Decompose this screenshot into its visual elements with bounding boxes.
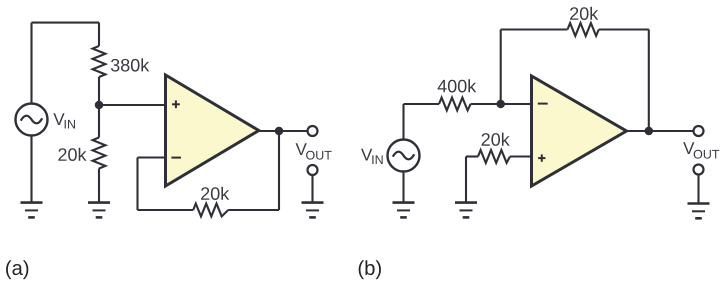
minus sign U1 (a) bbox=[171, 157, 181, 159]
label 380k bbox=[111, 58, 149, 71]
node output (b) bbox=[645, 127, 654, 136]
label VOUT (b) bbox=[683, 142, 719, 158]
wire feedback bottom right (a) bbox=[228, 209, 279, 211]
wire VIN up (b) bbox=[402, 104, 404, 140]
resistor R 400k (b) bbox=[439, 98, 471, 111]
resistor R 20k feedback (a) bbox=[193, 204, 228, 217]
wire node to 20k (a) bbox=[98, 105, 100, 138]
node output (a) bbox=[275, 127, 284, 136]
label 20k divider (a) bbox=[58, 148, 86, 161]
label VOUT (a) bbox=[296, 143, 332, 159]
wire node to op-amp plus input (a) bbox=[99, 104, 166, 106]
label VIN (a) bbox=[53, 113, 75, 128]
wire feedback top left (b) bbox=[501, 28, 568, 30]
wire plus branch horizontal (b) bbox=[466, 155, 478, 157]
terminal VOUT (a) bbox=[308, 126, 318, 136]
wire terminal to ground (b) bbox=[697, 175, 699, 204]
minus sign U2 (b) bbox=[538, 103, 548, 105]
wire left vertical top (a) bbox=[30, 23, 32, 104]
wire feedback top right (b) bbox=[599, 28, 649, 30]
ground under 20k (a) bbox=[88, 203, 110, 218]
wire feedback left vertical (a) bbox=[136, 158, 138, 211]
wire plus branch vertical (b) bbox=[465, 157, 467, 203]
caption (b) bbox=[359, 260, 381, 279]
AC source VIN (a) bbox=[16, 104, 48, 136]
node input divider (a) bbox=[95, 101, 104, 110]
wire 20k to ground (a) bbox=[98, 169, 100, 203]
wire feedback left vertical (b) bbox=[500, 30, 502, 105]
ground under terminal (b) bbox=[688, 204, 710, 219]
plus sign U1 (a) bbox=[172, 100, 180, 108]
wire 400k to minus input (b) bbox=[471, 103, 532, 105]
label 20k feedback (b) bbox=[570, 7, 598, 20]
wire VIN to 400k (b) bbox=[404, 103, 440, 105]
wire feedback right vertical (a) bbox=[278, 131, 280, 210]
ground under VIN (b) bbox=[393, 203, 415, 218]
wire minus input (a) bbox=[138, 156, 166, 158]
resistor R 20k divider (a) bbox=[93, 138, 106, 169]
AC source VIN (b) bbox=[388, 140, 420, 172]
wire VIN to ground (b) bbox=[402, 172, 404, 203]
wire op-amp output (a) bbox=[259, 130, 308, 132]
op-amp U1 (a) bbox=[166, 75, 259, 186]
resistor R 380k (a) bbox=[93, 46, 106, 77]
wire top rail (a) bbox=[32, 22, 100, 24]
label VIN (b) bbox=[361, 149, 383, 164]
label 20k plus input (b) bbox=[482, 133, 510, 146]
wire op-amp output (b) bbox=[627, 130, 694, 132]
plus sign U2 (b) bbox=[538, 154, 545, 161]
label 400k (b) bbox=[438, 79, 477, 92]
resistor R 20k feedback (b) bbox=[568, 23, 599, 36]
ground under terminal (a) bbox=[302, 203, 324, 218]
op-amp U2 (b) bbox=[532, 76, 627, 186]
wire feedback right vertical (b) bbox=[648, 30, 650, 132]
caption (a) bbox=[6, 260, 28, 279]
ground under VIN (a) bbox=[21, 203, 43, 218]
label 20k feedback (a) bbox=[201, 187, 229, 200]
wire 380k to node (a) bbox=[98, 77, 100, 105]
wire feedback bottom left (a) bbox=[138, 209, 194, 211]
terminal VOUT (b) bbox=[694, 126, 704, 136]
terminal ground return (b) bbox=[694, 165, 704, 175]
terminal ground return (a) bbox=[308, 165, 318, 175]
wire VIN to ground (a) bbox=[30, 136, 32, 203]
node input (b) bbox=[496, 100, 505, 109]
wire terminal to ground (a) bbox=[311, 175, 313, 203]
resistor R 20k plus input (b) bbox=[478, 150, 510, 163]
wire 20k to plus input (b) bbox=[510, 155, 532, 157]
wire top to 380k (a) bbox=[98, 23, 100, 46]
ground under plus branch (b) bbox=[455, 203, 477, 218]
